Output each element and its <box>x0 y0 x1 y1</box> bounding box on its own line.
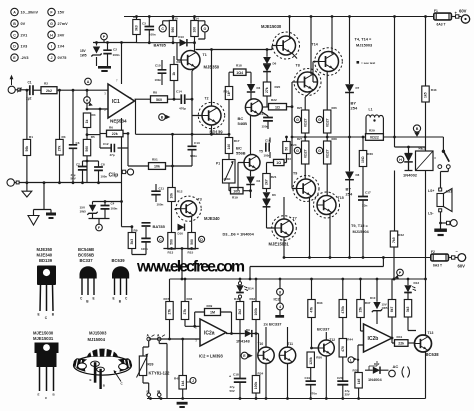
svg-text:100n: 100n <box>157 203 164 207</box>
svg-text:27k: 27k <box>58 145 62 151</box>
svg-text:100n: 100n <box>111 207 118 211</box>
svg-text:R1: R1 <box>29 135 33 139</box>
svg-text:IC1: IC1 <box>112 99 120 105</box>
svg-text:T11: T11 <box>288 342 294 346</box>
svg-text:C2: C2 <box>113 48 117 52</box>
svg-text:D16: D16 <box>178 232 184 236</box>
svg-text:R6: R6 <box>109 126 113 130</box>
svg-text:D13: D13 <box>414 281 420 285</box>
svg-text:0V75: 0V75 <box>58 56 67 60</box>
svg-text:RE1: RE1 <box>419 147 426 151</box>
svg-text:C4: C4 <box>111 202 115 206</box>
svg-text:R42: R42 <box>398 233 404 237</box>
svg-text:T14: T14 <box>312 43 318 47</box>
svg-text:4: 4 <box>279 305 281 309</box>
svg-text:E: E <box>113 297 115 301</box>
svg-text:MJ15004: MJ15004 <box>353 229 370 234</box>
svg-text:0Ω22: 0Ω22 <box>370 136 379 140</box>
svg-text:T3: T3 <box>198 198 202 202</box>
svg-text:140: 140 <box>227 144 231 150</box>
svg-text:50V: 50V <box>230 389 235 393</box>
svg-text:T4, T14 =: T4, T14 = <box>355 37 372 42</box>
svg-text:-2V3: -2V3 <box>21 56 29 60</box>
svg-text:C1: C1 <box>28 81 32 85</box>
svg-text:R29: R29 <box>369 128 375 132</box>
svg-text:C10: C10 <box>155 64 161 68</box>
svg-text:R4: R4 <box>92 113 96 117</box>
svg-text:60V: 60V <box>458 264 466 269</box>
svg-text:56: 56 <box>285 147 289 151</box>
svg-text:R21: R21 <box>271 175 277 179</box>
svg-text:0V: 0V <box>21 22 26 26</box>
svg-text:60V: 60V <box>459 9 467 14</box>
svg-text:R45: R45 <box>174 377 180 381</box>
svg-text:BAT85: BAT85 <box>154 43 167 48</box>
svg-text:C11: C11 <box>159 187 165 191</box>
svg-text:1k5: 1k5 <box>357 379 361 385</box>
svg-text:R27: R27 <box>297 137 303 141</box>
svg-text:A: A <box>86 98 89 102</box>
svg-text:F1: F1 <box>434 9 438 13</box>
svg-text:IC2 = LM393: IC2 = LM393 <box>199 354 224 359</box>
svg-text:470k: 470k <box>341 306 345 314</box>
svg-text:1k5: 1k5 <box>424 92 428 98</box>
svg-text:2V1: 2V1 <box>21 33 28 37</box>
svg-text:BC638: BC638 <box>426 352 440 357</box>
svg-text:R28: R28 <box>332 137 338 141</box>
svg-text:R2: R2 <box>44 82 48 86</box>
svg-text:2k2: 2k2 <box>46 89 52 93</box>
svg-text:R50: R50 <box>316 356 322 360</box>
svg-text:C: C <box>161 27 164 31</box>
svg-text:D6: D6 <box>272 193 276 197</box>
svg-text:MJE15030: MJE15030 <box>33 331 54 336</box>
svg-text:10Ω: 10Ω <box>233 189 240 193</box>
svg-text:6A3 T: 6A3 T <box>433 264 442 268</box>
svg-text:E: E <box>90 378 92 382</box>
svg-text:T7: T7 <box>293 217 297 221</box>
svg-text:2x BC337: 2x BC337 <box>264 322 283 327</box>
svg-text:27mV: 27mV <box>58 22 69 26</box>
svg-text:1N4002: 1N4002 <box>403 173 418 178</box>
svg-text:3k3: 3k3 <box>135 25 139 31</box>
svg-text:47p: 47p <box>110 153 115 157</box>
svg-text:15k: 15k <box>359 307 363 313</box>
svg-text:E: E <box>93 297 95 301</box>
svg-text:D8: D8 <box>356 173 360 177</box>
svg-text:D3...D6 = 1N4004: D3...D6 = 1N4004 <box>223 232 255 237</box>
svg-text:G: G <box>296 118 299 122</box>
svg-text:P1: P1 <box>216 162 220 166</box>
svg-text:BD139: BD139 <box>39 258 53 263</box>
svg-text:MJE350: MJE350 <box>37 247 53 252</box>
svg-text:100: 100 <box>193 27 197 33</box>
svg-text:560: 560 <box>156 98 162 102</box>
svg-text:T12: T12 <box>330 338 336 342</box>
svg-text:O: O <box>204 27 207 31</box>
svg-text:47k: 47k <box>310 307 314 313</box>
svg-text:0Ω27: 0Ω27 <box>303 118 307 126</box>
svg-text:150n: 150n <box>262 125 269 129</box>
svg-text:G: G <box>318 118 321 122</box>
svg-text:T5: T5 <box>259 150 263 154</box>
svg-text:H: H <box>50 33 53 37</box>
svg-text:10k: 10k <box>170 193 174 199</box>
svg-text:100n: 100n <box>149 32 156 36</box>
svg-text:546B: 546B <box>238 121 248 126</box>
svg-text:R39: R39 <box>148 363 154 367</box>
svg-text:C14: C14 <box>176 90 182 94</box>
svg-text:R22: R22 <box>271 98 277 102</box>
svg-text:C7: C7 <box>76 163 80 167</box>
svg-text:≡: ≡ <box>434 156 436 160</box>
svg-text:T1: T1 <box>203 53 207 57</box>
svg-text:8: 8 <box>279 290 281 294</box>
svg-text:R47: R47 <box>164 297 170 301</box>
svg-text:56k: 56k <box>25 146 29 152</box>
svg-text:D4: D4 <box>257 179 261 183</box>
svg-text:IC2a: IC2a <box>204 331 215 337</box>
svg-text:R19: R19 <box>232 196 238 200</box>
svg-text:C18: C18 <box>233 373 239 377</box>
svg-text:1V4: 1V4 <box>58 45 66 49</box>
svg-text:R13: R13 <box>168 251 174 255</box>
svg-text:10Ω: 10Ω <box>361 156 365 163</box>
svg-text:MJE15031: MJE15031 <box>269 242 290 247</box>
svg-text:T13: T13 <box>428 331 434 335</box>
svg-text:MJE15031: MJE15031 <box>33 336 54 341</box>
svg-text:R9: R9 <box>134 229 138 233</box>
svg-text:= see text: = see text <box>361 61 375 65</box>
svg-text:D7: D7 <box>356 86 360 90</box>
svg-text:BC546B: BC546B <box>78 247 94 252</box>
svg-text:R37: R37 <box>365 301 371 305</box>
svg-text:1M: 1M <box>210 311 215 315</box>
svg-text:MJ15003: MJ15003 <box>356 43 373 48</box>
svg-text:BC639: BC639 <box>112 258 126 263</box>
svg-text:R43: R43 <box>431 88 437 92</box>
svg-text:B: B <box>416 127 419 131</box>
svg-text:7k5: 7k5 <box>392 237 396 243</box>
svg-text:22k: 22k <box>112 132 118 136</box>
svg-text:R49: R49 <box>207 304 213 308</box>
svg-text:C3: C3 <box>142 22 146 26</box>
svg-text:MJ15004: MJ15004 <box>88 337 106 342</box>
svg-text:560: 560 <box>171 27 175 33</box>
svg-text:C: C <box>159 238 162 242</box>
svg-text:www.elecfree.com: www.elecfree.com <box>136 259 245 276</box>
svg-text:1V3: 1V3 <box>21 45 28 49</box>
svg-text:MJE340: MJE340 <box>204 216 220 221</box>
svg-text:T9: T9 <box>293 172 297 176</box>
svg-text:1W5: 1W5 <box>80 54 87 58</box>
svg-text:1k: 1k <box>85 119 89 123</box>
svg-text:D3: D3 <box>257 86 261 90</box>
svg-text:1N4004: 1N4004 <box>368 377 382 382</box>
svg-text:3k3: 3k3 <box>130 239 134 245</box>
svg-text:C19: C19 <box>305 376 311 380</box>
svg-text:F2: F2 <box>431 250 435 254</box>
svg-text:C12: C12 <box>103 142 109 146</box>
svg-text:T2: T2 <box>205 97 209 101</box>
svg-text:100k: 100k <box>254 308 258 316</box>
svg-text:254: 254 <box>346 192 353 197</box>
svg-text:C8: C8 <box>101 163 105 167</box>
svg-text:D: D <box>200 238 203 242</box>
svg-text:120k: 120k <box>309 357 313 365</box>
svg-text:R32: R32 <box>250 297 256 301</box>
svg-text:IC2b: IC2b <box>368 336 379 342</box>
svg-text:R34: R34 <box>258 372 264 376</box>
svg-text:C13: C13 <box>194 141 200 145</box>
svg-text:R3: R3 <box>62 135 66 139</box>
svg-text:BC337: BC337 <box>80 258 94 263</box>
svg-text:560: 560 <box>190 239 194 245</box>
svg-text:R5: R5 <box>91 135 95 139</box>
svg-text:J: J <box>192 379 194 383</box>
svg-text:D: D <box>13 45 16 49</box>
svg-text:LS+: LS+ <box>428 189 434 193</box>
svg-text:D10: D10 <box>370 296 376 300</box>
svg-text:1Ω4: 1Ω4 <box>236 71 243 75</box>
svg-text:NE5534: NE5534 <box>110 119 127 124</box>
svg-text:10...30mV: 10...30mV <box>21 11 39 15</box>
svg-text:D6: D6 <box>273 62 277 66</box>
svg-text:+: + <box>229 375 231 379</box>
svg-text:R14: R14 <box>193 16 199 20</box>
svg-text:R25: R25 <box>297 106 303 110</box>
svg-text:27k: 27k <box>183 309 187 315</box>
svg-text:E: E <box>38 393 40 397</box>
svg-text:D9: D9 <box>246 328 250 332</box>
svg-text:100n: 100n <box>101 175 108 179</box>
svg-text:1Ω: 1Ω <box>276 161 281 165</box>
svg-text:R15: R15 <box>188 251 194 255</box>
svg-text:T8: T8 <box>296 64 300 68</box>
svg-text:0Ω27: 0Ω27 <box>325 149 329 157</box>
svg-text:50V: 50V <box>71 177 76 181</box>
svg-text:G: G <box>50 22 53 26</box>
svg-text:254: 254 <box>351 106 358 111</box>
svg-text:BC556B: BC556B <box>78 253 94 258</box>
svg-text:E: E <box>38 313 40 317</box>
svg-text:27k: 27k <box>168 309 172 315</box>
svg-text:1N4148: 1N4148 <box>236 339 250 344</box>
svg-text:27k: 27k <box>265 87 269 93</box>
svg-text:6k7: 6k7 <box>390 307 394 313</box>
svg-text:C: C <box>13 33 16 37</box>
svg-text:C17: C17 <box>365 191 371 195</box>
svg-text:T10: T10 <box>258 342 264 346</box>
svg-text:R46: R46 <box>187 297 193 301</box>
svg-text:A: A <box>13 10 16 14</box>
svg-text:R33: R33 <box>317 301 323 305</box>
svg-text:BC337: BC337 <box>317 327 330 332</box>
svg-text:556B: 556B <box>236 150 246 155</box>
svg-text:1k4: 1k4 <box>181 381 185 387</box>
svg-text:1Ω: 1Ω <box>275 105 280 109</box>
svg-text:R7: R7 <box>133 15 137 19</box>
svg-text:G: G <box>318 149 321 153</box>
svg-text:T9, T15 =: T9, T15 = <box>351 223 368 228</box>
svg-text:B: B <box>13 22 16 26</box>
svg-text:R41: R41 <box>397 335 403 339</box>
svg-text:R16: R16 <box>224 90 230 94</box>
svg-text:R8: R8 <box>153 91 157 95</box>
svg-text:100n: 100n <box>113 53 120 57</box>
svg-text:MJE15030: MJE15030 <box>261 24 282 29</box>
svg-text:100n: 100n <box>141 247 148 251</box>
svg-text:R51: R51 <box>152 158 158 162</box>
svg-text:R30: R30 <box>367 152 373 156</box>
svg-text:R26: R26 <box>332 106 338 110</box>
svg-text:1W5: 1W5 <box>382 306 388 310</box>
svg-text:A: A <box>87 80 90 84</box>
svg-text:J: J <box>51 56 53 60</box>
svg-text:C15: C15 <box>260 112 266 116</box>
svg-text:6A3 T: 6A3 T <box>437 23 446 27</box>
svg-text:2k7: 2k7 <box>265 179 269 185</box>
svg-text:680n: 680n <box>190 154 197 158</box>
svg-text:1k: 1k <box>172 72 176 76</box>
svg-text:R48: R48 <box>234 297 240 301</box>
svg-text:B: B <box>161 115 164 119</box>
svg-text:R44: R44 <box>347 338 353 342</box>
svg-text:0Ω27: 0Ω27 <box>303 149 307 157</box>
svg-text:I: I <box>51 45 52 49</box>
svg-text:R11: R11 <box>177 60 183 64</box>
svg-text:D13: D13 <box>178 35 184 39</box>
svg-text:R17: R17 <box>234 139 240 143</box>
svg-text:100n: 100n <box>264 154 271 158</box>
svg-text:G: G <box>296 149 299 153</box>
svg-text:C20: C20 <box>337 376 343 380</box>
svg-text:R18: R18 <box>236 64 242 68</box>
svg-text:0Ω27: 0Ω27 <box>325 118 329 126</box>
svg-text:LS-: LS- <box>428 212 433 216</box>
svg-text:R10: R10 <box>172 16 178 20</box>
svg-text:L1: L1 <box>369 108 373 112</box>
svg-text:10k: 10k <box>154 165 160 169</box>
svg-text:Clip: Clip <box>109 173 119 179</box>
svg-text:MJ15003: MJ15003 <box>89 331 107 336</box>
svg-text:1W5: 1W5 <box>80 210 87 214</box>
svg-text:470: 470 <box>341 346 345 352</box>
svg-text:24V: 24V <box>58 33 65 37</box>
svg-text:560: 560 <box>85 146 89 152</box>
svg-text:H: H <box>399 158 402 162</box>
svg-text:3k3: 3k3 <box>406 307 410 313</box>
svg-text:2k2: 2k2 <box>238 309 242 315</box>
svg-text:AC: AC <box>393 364 399 369</box>
svg-text:D14: D14 <box>248 287 254 291</box>
svg-text:250Ω: 250Ω <box>224 177 232 181</box>
svg-text:MJE340: MJE340 <box>37 253 53 258</box>
svg-text:470p: 470p <box>179 107 186 111</box>
svg-text:15V: 15V <box>80 49 87 53</box>
svg-text:BAT85: BAT85 <box>153 224 166 229</box>
svg-text:LS1: LS1 <box>446 190 452 194</box>
svg-text:100n: 100n <box>155 78 162 82</box>
svg-text:22k: 22k <box>398 342 404 346</box>
svg-text:R35: R35 <box>353 369 359 373</box>
svg-text:100k: 100k <box>254 382 258 390</box>
svg-text:C6: C6 <box>76 141 80 145</box>
svg-text:560: 560 <box>170 239 174 245</box>
svg-text:T15: T15 <box>338 196 344 200</box>
svg-text:R20: R20 <box>275 85 281 89</box>
svg-text:15V: 15V <box>58 11 65 15</box>
svg-text:R12: R12 <box>177 190 183 194</box>
svg-text:25V: 25V <box>345 392 350 396</box>
